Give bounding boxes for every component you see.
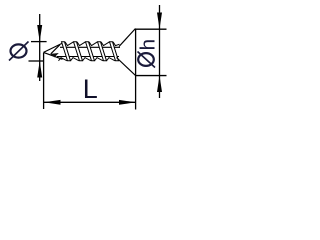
dimension line Øh (vertical, right) <box>159 5 161 98</box>
extension line Øh top <box>136 28 167 30</box>
tip flute wedge <box>50 53 59 57</box>
thread crest 1 <box>62 42 71 61</box>
screw tip (cone) <box>44 43 64 60</box>
shank core <box>57 47 120 56</box>
arrow down (Øh top) <box>157 13 162 30</box>
extension line Øh bottom <box>136 75 167 77</box>
tip flute line <box>51 45 60 54</box>
thread zigzag connectors top <box>65 42 120 46</box>
head face / L right extension line <box>135 29 137 110</box>
label Ø (diameter symbol) <box>9 42 29 61</box>
thread crest 3 <box>86 42 95 61</box>
arrow up (Ø bottom) <box>37 61 42 78</box>
svg-text:h: h <box>137 39 160 50</box>
svg-text:L: L <box>83 74 98 104</box>
thread zigzag connectors bottom <box>59 58 116 61</box>
dimension line L <box>44 101 136 103</box>
thread crest 5 <box>110 42 119 61</box>
arrow left (L) <box>44 100 61 105</box>
arrow down (Ø top) <box>37 25 42 42</box>
extension line Ø bottom <box>29 60 45 62</box>
arrow right (L) <box>119 100 136 105</box>
extension line Ø top <box>31 41 47 43</box>
arrow up (Øh bottom) <box>157 76 162 93</box>
thread crest 4 <box>98 42 107 61</box>
label Øh : diameter symbol <box>138 52 156 68</box>
dimension line Ø (vertical, left) <box>39 14 41 81</box>
thread crest 2 <box>74 42 83 61</box>
extension line L left (from screw tip) <box>43 53 45 109</box>
screw head (countersunk cone) <box>117 29 136 76</box>
